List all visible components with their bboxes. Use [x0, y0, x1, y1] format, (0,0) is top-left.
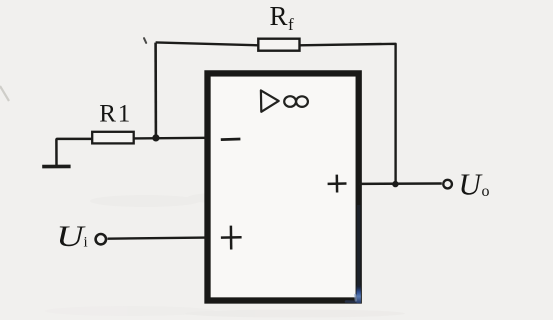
- plus label (output polarity): [328, 175, 347, 193]
- svg-text:o: o: [482, 183, 490, 200]
- op-amp U1 box: [208, 73, 359, 300]
- op-amp gain symbol triangle: [261, 90, 279, 111]
- wire R1 to inverting input: [134, 137, 207, 140]
- faint scan smudges: [45, 193, 405, 318]
- resistor Rf: [258, 39, 299, 51]
- wire op-amp output: [359, 182, 442, 185]
- resistor R1: [92, 132, 134, 144]
- ground: [42, 165, 70, 169]
- wire top run to Rf: [156, 42, 259, 45]
- svg-text:i: i: [84, 235, 88, 251]
- plus label (non-inverting input): [221, 226, 242, 250]
- wire Ui to non-inverting input: [108, 238, 207, 239]
- infinity symbol: [284, 96, 296, 107]
- svg-text:R1: R1: [99, 101, 132, 128]
- stray tick near top wire corner: [144, 38, 146, 43]
- output terminal: [443, 180, 452, 189]
- svg-text:U: U: [459, 167, 484, 202]
- minus label (inverting input): [221, 138, 241, 141]
- wire ground to R1: [56, 139, 92, 166]
- node junction at R1 / feedback: [152, 134, 159, 141]
- svg-text:f: f: [288, 15, 294, 34]
- svg-text:R: R: [270, 1, 288, 31]
- svg-text:U: U: [56, 221, 86, 254]
- wire Rf to output node: [300, 44, 396, 182]
- node junction at output / feedback: [392, 181, 398, 187]
- input terminal Ui: [96, 234, 106, 244]
- wire junction to top feedback run: [154, 43, 157, 138]
- stray mark left edge: [0, 86, 9, 101]
